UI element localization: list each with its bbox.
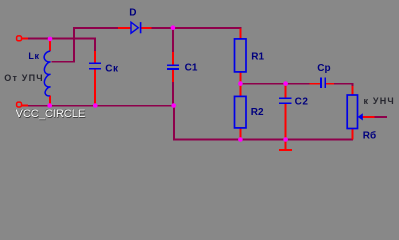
svg-text:VCC_CIRCLE: VCC_CIRCLE bbox=[16, 108, 86, 120]
wire: bottom ground bus bbox=[173, 139, 353, 141]
svg-text:R1: R1 bbox=[251, 52, 264, 63]
terminal input (top-left) bbox=[17, 36, 22, 41]
wire: diode row left segment bbox=[73, 27, 118, 29]
capacitor C1 bottom pin bbox=[172, 70, 174, 83]
svg-text:Ск: Ск bbox=[105, 63, 119, 74]
wire: C1 top lead from node B bbox=[172, 29, 174, 52]
svg-text:D: D bbox=[129, 8, 136, 19]
resistor R2 top pin bbox=[240, 84, 242, 97]
diode D cathode bar bbox=[140, 22, 142, 33]
capacitor C2 top pin bbox=[285, 84, 287, 98]
wire: node B to R1 corner bbox=[173, 27, 242, 29]
capacitor C2 plates bbox=[279, 98, 292, 100]
potentiometer R6 bottom pin bbox=[352, 129, 354, 140]
resistor R1 bottom pin bbox=[240, 72, 242, 84]
inductor Lk top pin bbox=[49, 41, 51, 52]
junction C1 bottom corner bbox=[171, 103, 176, 108]
diode D cathode pin bbox=[141, 27, 152, 29]
wire: diode to node B bbox=[152, 27, 174, 29]
wire: C2 node to Cp bbox=[286, 83, 310, 85]
resistor R2 bottom pin bbox=[240, 128, 242, 140]
node A junction bbox=[48, 37, 53, 42]
svg-text:Cp: Cp bbox=[317, 63, 330, 74]
wire: mid node row R1 to C2 bbox=[241, 83, 286, 85]
junction coil bottom bbox=[47, 103, 52, 108]
wire: C1 bottom lead to bus bbox=[172, 82, 174, 106]
potentiometer R6 body bbox=[347, 95, 357, 129]
wire: input terminal to node A (top) bbox=[21, 38, 28, 40]
svg-text:R2: R2 bbox=[251, 107, 264, 118]
potentiometer R6 wiper pin bbox=[363, 116, 375, 118]
terminal input (bottom-left) bbox=[17, 102, 22, 107]
inductor Lk coil bbox=[44, 51, 50, 96]
wire: bottom-left horizontal run bbox=[28, 105, 174, 107]
wire: bottom-left terminal lead bbox=[22, 105, 29, 107]
svg-text:C1: C1 bbox=[185, 63, 198, 74]
ground pin bbox=[285, 140, 287, 150]
svg-text:к УНЧ: к УНЧ bbox=[364, 96, 395, 106]
capacitor C2 bottom pin bbox=[285, 104, 287, 139]
capacitor Ck bottom pin bbox=[94, 70, 96, 106]
potentiometer R6 top pin bbox=[352, 86, 354, 95]
node B junction (diode-C1-R1) bbox=[171, 25, 176, 30]
wire: tap riser vertical bbox=[73, 27, 75, 63]
wire: R6 corner vertical bbox=[352, 83, 354, 87]
inductor Lk bottom pin bbox=[49, 96, 51, 106]
capacitor C1 top pin bbox=[172, 52, 174, 65]
wire: wiper output bbox=[375, 116, 388, 118]
svg-text:Rб: Rб bbox=[363, 130, 376, 142]
junction C2 top bbox=[283, 81, 288, 86]
diode D anode pin bbox=[118, 27, 131, 29]
junction ground bbox=[283, 137, 288, 142]
capacitor Ck plates bbox=[89, 62, 101, 64]
capacitor Cp right pin bbox=[326, 83, 334, 85]
capacitor C1 plates bbox=[167, 64, 179, 66]
resistor R1 top pin bbox=[240, 29, 242, 40]
svg-text:Lк: Lк bbox=[28, 51, 39, 61]
capacitor Ck top pin bbox=[94, 51, 96, 63]
svg-text:От УПЧ: От УПЧ bbox=[4, 73, 44, 83]
ground bar bbox=[279, 149, 292, 151]
svg-text:C2: C2 bbox=[295, 97, 309, 108]
junction R1-R2 node bbox=[238, 81, 243, 86]
wire: Cp to R6 corner bbox=[334, 83, 354, 85]
resistor R2 body bbox=[235, 96, 247, 128]
wire: tank tap horizontal bbox=[52, 61, 74, 63]
potentiometer R6 wiper arrow bbox=[358, 113, 363, 120]
junction R2 bottom bbox=[238, 137, 243, 142]
capacitor Cp left pin bbox=[310, 83, 321, 85]
resistor R1 body bbox=[235, 39, 247, 72]
diode D triangle bbox=[131, 22, 138, 33]
wire: step-down vertical at C1 column bbox=[173, 105, 175, 140]
junction Ck bottom bbox=[93, 103, 98, 108]
wire: node A corner down to Ck bbox=[94, 38, 96, 51]
capacitor Cp plates bbox=[320, 78, 322, 88]
